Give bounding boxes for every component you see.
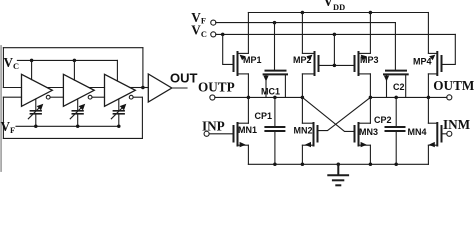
capacitor CP2 <box>386 97 405 164</box>
wire OUTM rail <box>370 96 447 98</box>
node VC-MP1 <box>221 33 225 37</box>
wire A3 lower out <box>133 96 142 98</box>
terminal VC <box>211 32 216 37</box>
svg-text:CP2: CP2 <box>374 115 392 125</box>
node VF-D3 <box>117 125 121 129</box>
wire C2 gate stem <box>394 23 396 70</box>
varactor D2 <box>70 99 85 126</box>
buffer A4 <box>148 74 172 102</box>
terminal INP <box>204 131 209 136</box>
capacitor CP1 <box>265 97 284 164</box>
transistor MP2 (mirrored) <box>302 13 318 98</box>
wire VC rail <box>216 33 455 35</box>
transistor MN2 (mirrored) <box>302 97 317 164</box>
transistor MP1 <box>234 13 249 98</box>
MOS capacitor MC1 <box>263 71 287 98</box>
wire VC to MP2-MP3 tie <box>333 34 335 65</box>
wire OUT <box>172 87 187 89</box>
node feedback junction <box>141 86 145 90</box>
feedback box bottom edge <box>3 137 142 139</box>
wire VC drop A2 <box>73 60 75 80</box>
svg-text:MN1: MN1 <box>238 125 257 135</box>
varactor D3 <box>111 99 126 126</box>
svg-text:MP4: MP4 <box>413 57 432 67</box>
wire cross couple OUTP to MN3 gate <box>302 97 354 131</box>
node VDD-MP2 <box>301 11 305 15</box>
wire VF rail left <box>16 125 119 127</box>
node VF-D1 <box>34 125 38 129</box>
node OUTM-MP4MN4 <box>427 96 431 100</box>
svg-text:MC1: MC1 <box>261 86 280 96</box>
transistor MN4 (mirrored) <box>428 97 441 164</box>
node gate tie tap <box>333 64 337 68</box>
wire OUTP rail <box>215 96 303 98</box>
node OUTM junction <box>369 96 373 100</box>
node VF-MC1 <box>273 21 277 25</box>
wire VC rail left <box>17 59 117 61</box>
wire VC drop A3 <box>116 60 118 81</box>
node OUTP junction <box>301 96 305 100</box>
svg-text:MN4: MN4 <box>408 127 427 137</box>
svg-text:MN3: MN3 <box>359 127 378 137</box>
node gnd-MN2 <box>301 163 305 167</box>
transistor MN3 <box>355 97 371 164</box>
node VC-A2 <box>73 59 77 63</box>
ground symbol <box>328 164 348 185</box>
wire VDD rail <box>248 12 428 14</box>
wire ground rail <box>248 163 428 165</box>
node OUTM-CP2 <box>394 96 398 100</box>
wire MC1 gate stem <box>274 23 276 70</box>
left figure gray border <box>0 46 2 171</box>
node VF-D2 <box>76 125 80 129</box>
svg-text:OUTP: OUTP <box>198 79 235 94</box>
MOS capacitor C2 <box>384 71 408 98</box>
wire INM <box>442 133 447 135</box>
wire stage1 lower input <box>3 96 21 98</box>
node gnd-CP2 <box>394 163 398 167</box>
node VDD-MP3 <box>369 11 373 15</box>
svg-text:MP2: MP2 <box>293 55 312 65</box>
svg-text:INM: INM <box>443 117 471 132</box>
svg-text:C2: C2 <box>393 82 405 92</box>
terminal VF <box>211 20 216 25</box>
wire A1 upper out <box>47 87 64 89</box>
svg-text:INP: INP <box>202 119 225 134</box>
bubble A1 <box>46 95 50 99</box>
bubble A3 <box>129 95 133 99</box>
node gnd-CP1 <box>273 163 277 167</box>
transistor MP3 <box>355 13 371 98</box>
wire A2 upper out <box>89 87 105 89</box>
wire buffer input <box>143 87 148 89</box>
inverter stage A3 <box>105 74 136 106</box>
feedback box lower-left edge <box>2 97 4 138</box>
bubble A2 <box>88 95 92 99</box>
wire stage1 upper input <box>3 87 21 89</box>
feedback box upper-right edge <box>142 48 144 88</box>
wire A3 upper out <box>130 87 143 89</box>
node VC-tie <box>333 33 337 37</box>
feedback box upper-left edge <box>2 48 4 88</box>
transistor MN1 <box>234 97 249 164</box>
wire VC to MP4 gate <box>442 34 456 64</box>
terminal OUTM <box>447 95 452 100</box>
wire MP2-MP3 gate tie <box>319 64 355 66</box>
node VC-A1 <box>30 59 33 63</box>
feedback box top edge <box>3 47 143 49</box>
node OUTP-CP1 <box>273 96 277 100</box>
node gnd-stem <box>337 163 341 167</box>
wire INP <box>209 133 233 135</box>
svg-text:OUTM: OUTM <box>433 78 474 93</box>
inverter stage A2 <box>63 74 94 106</box>
wire VC drop A1 <box>31 60 33 79</box>
node gnd-MN3 <box>369 163 373 167</box>
wire A2 lower out <box>92 96 105 98</box>
terminal OUTP <box>210 95 215 100</box>
varactor D1 <box>28 99 43 126</box>
inverter stage A1 <box>22 74 53 106</box>
svg-text:MN2: MN2 <box>294 126 313 136</box>
wire cross couple OUTM to MN2 gate <box>318 97 371 130</box>
transistor MP4 (mirrored) <box>428 13 441 98</box>
svg-text:CP1: CP1 <box>255 111 273 121</box>
svg-text:OUT: OUT <box>170 70 198 85</box>
wire VF rail <box>216 22 396 24</box>
node OUTP-MP1MN1 <box>247 96 251 100</box>
wire A1 lower out <box>50 96 63 98</box>
terminal INM <box>447 131 452 136</box>
wire VC to MP1 gate <box>223 34 234 64</box>
svg-text:MP1: MP1 <box>243 55 262 65</box>
feedback box lower-right edge <box>141 97 143 138</box>
svg-text:MP3: MP3 <box>360 55 379 65</box>
